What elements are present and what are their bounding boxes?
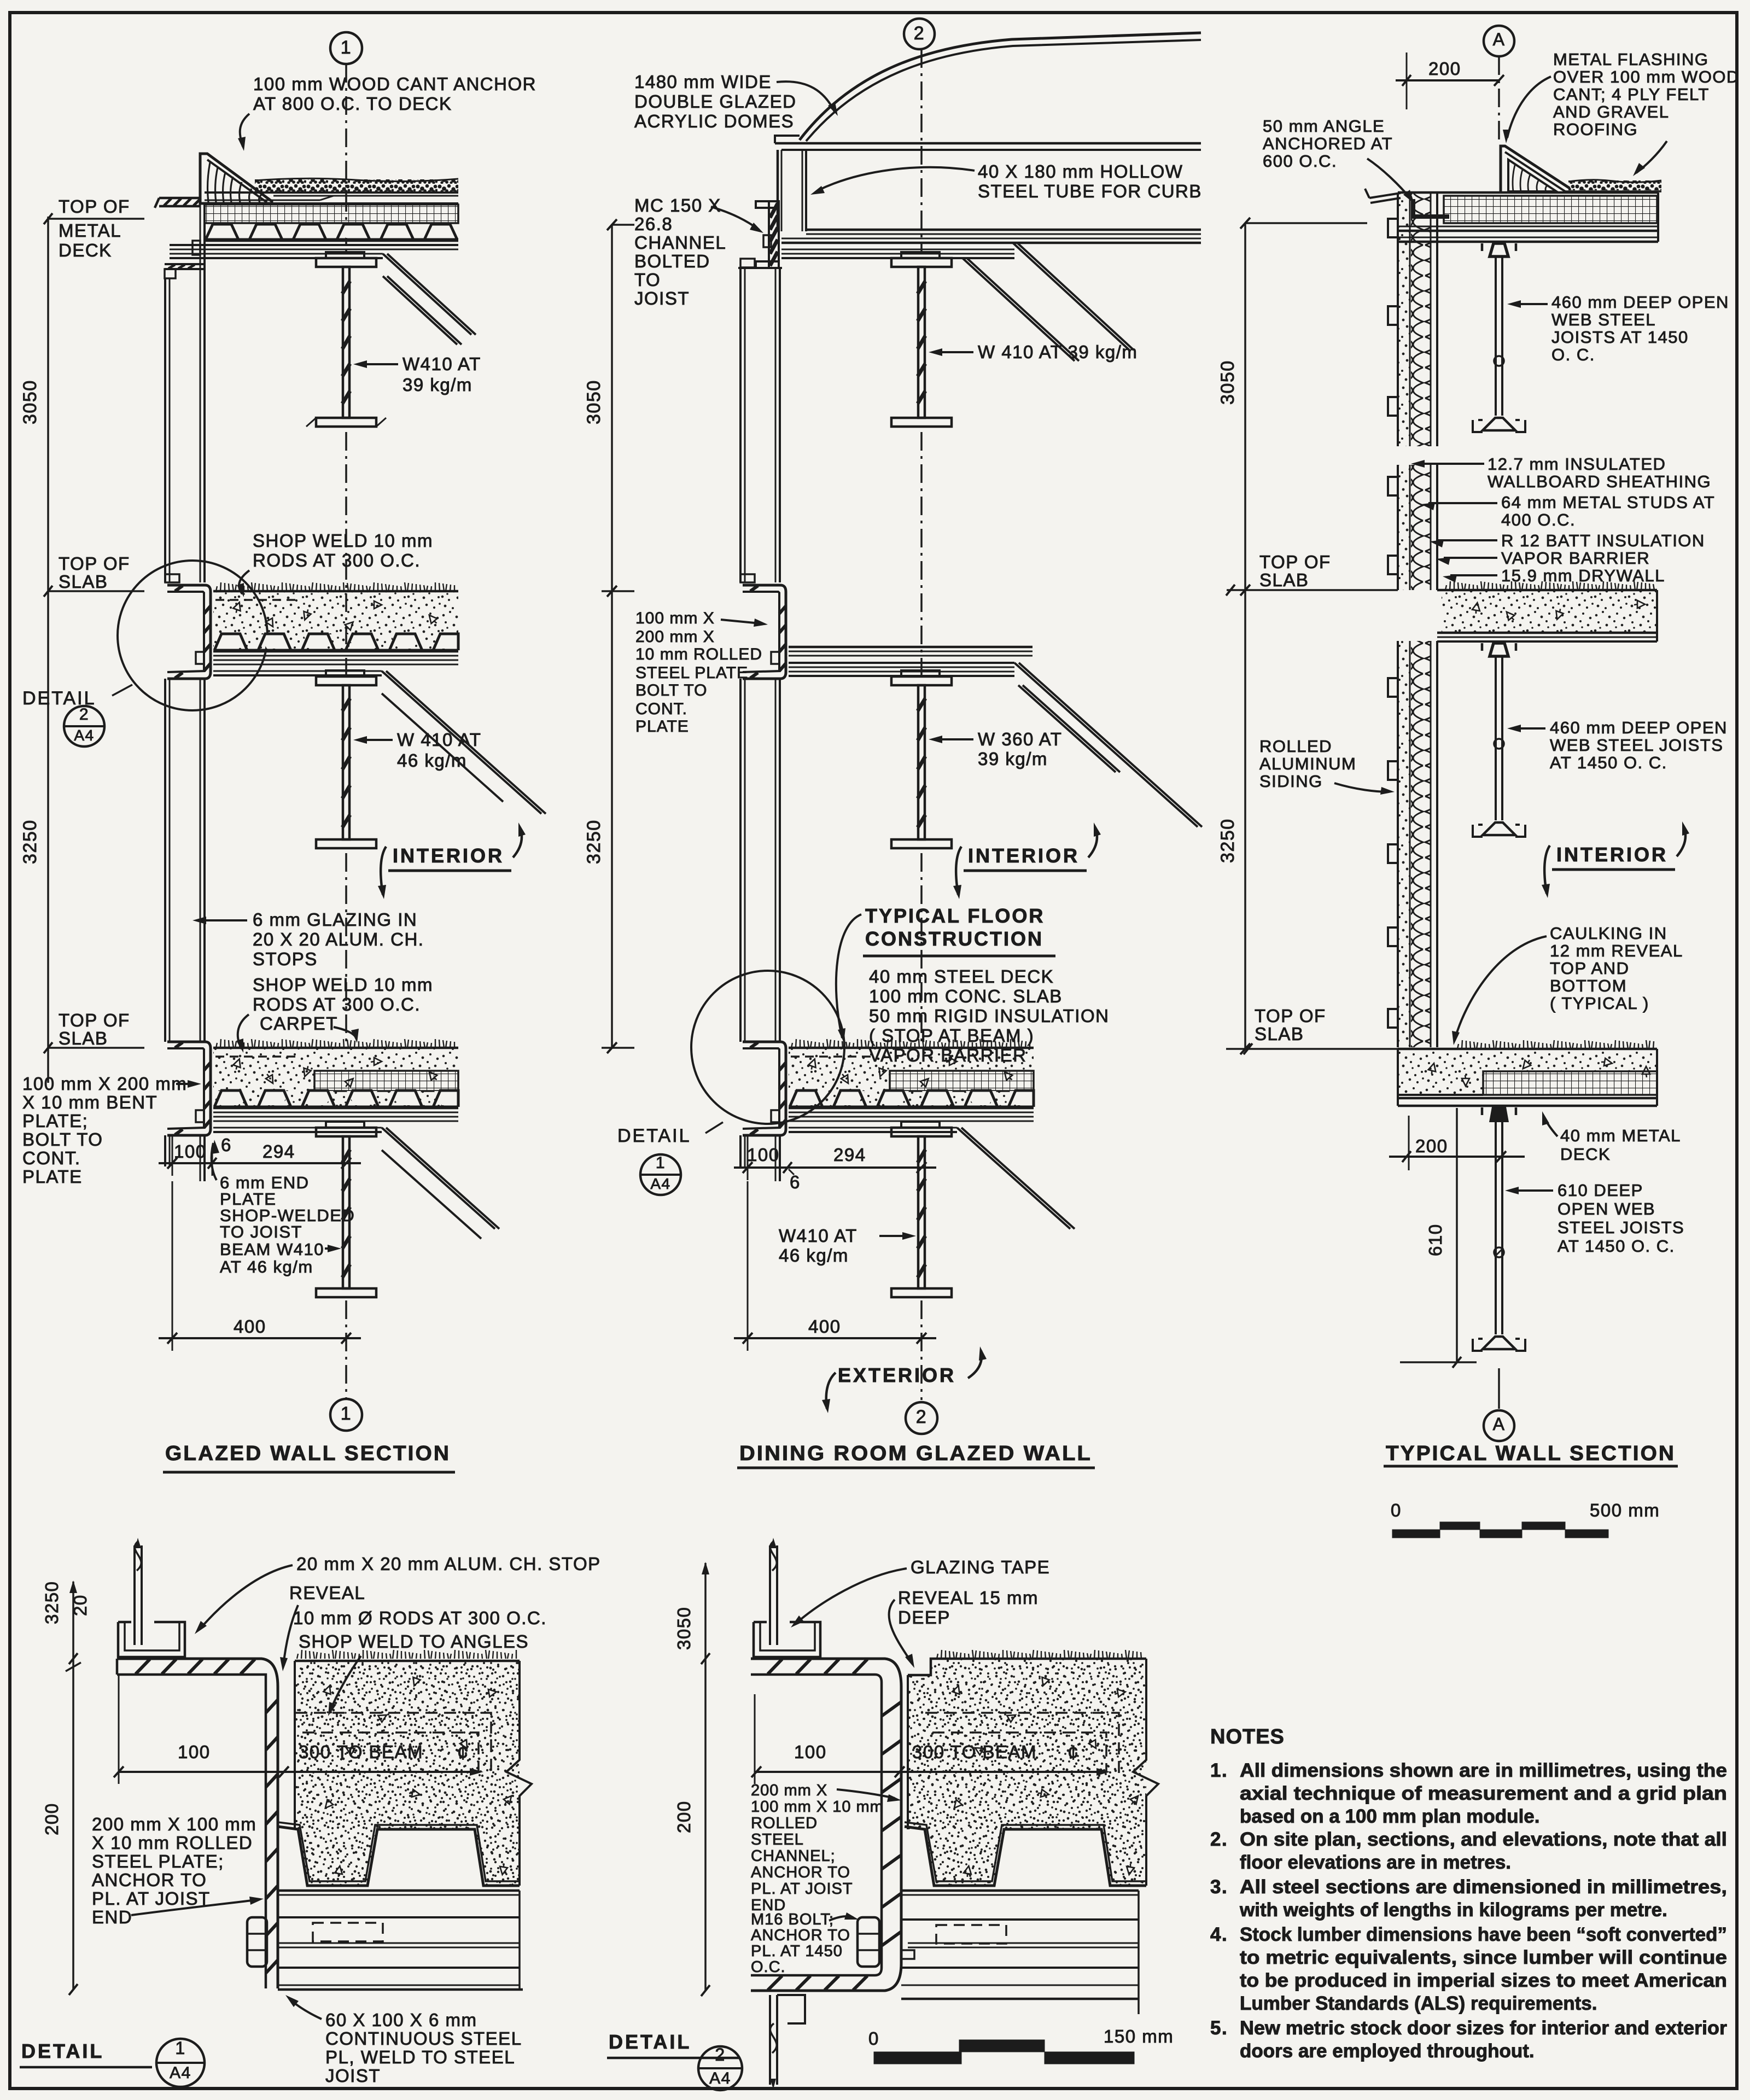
label reveal 15mm deep [889,1588,1039,1668]
first floor slab section 3 [1437,581,1657,641]
left dimension column section 1 [20,196,144,1083]
svg-text:10 mm Ø RODS AT 300 O.C: 10 mm Ø RODS AT 300 O.C. [293,1608,547,1628]
svg-text:20: 20 [70,1594,90,1616]
label W410 39 section 2 [929,342,1137,362]
svg-text:12 mm REVEAL: 12 mm REVEAL [1550,941,1683,960]
label 60x100x6 continuous steel pl detail 1 [285,1995,522,2086]
parapet wall below roof [165,204,205,278]
window mullion mid (section 1) [165,679,205,1042]
rolled steel channel detail 2 [751,1659,901,1991]
svg-text:W 360 AT: W 360 AT [978,729,1062,749]
svg-text:150 mm: 150 mm [1104,2026,1174,2046]
svg-text:ACRYLIC DOMES: ACRYLIC DOMES [634,111,794,131]
svg-text:( TYPICAL ): ( TYPICAL ) [1550,994,1649,1013]
grid bubble 2 bottom [906,1402,937,1434]
dim 200 bottom section 3 [1389,1116,1525,1170]
second floor slab section 2 [789,1039,1034,1132]
label 40x180 tube [810,161,1202,201]
svg-text:SLAB: SLAB [59,571,108,592]
svg-text:DETAIL: DETAIL [617,1125,691,1146]
top of slab label 2 section 3 [1226,1006,1398,1054]
label 1480mm domes [634,72,838,131]
svg-text:1.: 1. [1210,1760,1228,1781]
label 10mm rods shop weld [293,1608,547,1716]
svg-text:TO: TO [634,270,661,290]
svg-text:460 mm DEEP OPEN: 460 mm DEEP OPEN [1551,293,1729,312]
svg-text:CHANNEL;: CHANNEL; [751,1847,836,1865]
roof soffit lines [170,245,458,258]
svg-text:RODS AT 300 O.C.: RODS AT 300 O.C. [253,994,421,1014]
roof membrane lines [205,192,458,203]
svg-text:END: END [92,1907,132,1927]
dim 100/6/294 section 2 [734,1135,936,1192]
ceiling diagonals roof [383,254,476,345]
roof parapet flashing left [155,198,201,208]
svg-text:ANCHOR TO: ANCHOR TO [751,1864,850,1881]
concrete slab detail 1 [295,1650,532,1886]
svg-text:METAL: METAL [59,220,121,241]
svg-text:200 mm X: 200 mm X [635,628,715,646]
svg-text:100 mm X 200 mm: 100 mm X 200 mm [22,1074,187,1094]
svg-text:INTERIOR: INTERIOR [393,844,504,867]
INTERIOR label section 3 [1542,821,1689,898]
open web joist bottom section 3 [1473,1107,1525,1351]
window mullion upper section 2 [738,259,782,582]
window mullion mid section 2 [740,679,780,1042]
svg-text:2: 2 [916,1407,927,1427]
svg-text:INTERIOR: INTERIOR [968,844,1080,867]
svg-text:10 mm ROLLED: 10 mm ROLLED [635,645,762,663]
svg-text:All dimensions shown are in mi: All dimensions shown are in millimetres,… [1240,1760,1727,1781]
svg-text:CONTINUOUS STEEL: CONTINUOUS STEEL [325,2028,522,2049]
svg-text:ROOFING: ROOFING [1553,120,1638,139]
label metal flashing [1503,50,1740,176]
alum channel stop detail 1 [118,1622,185,1657]
svg-text:20 X 20 ALUM. CH.: 20 X 20 ALUM. CH. [253,929,424,949]
title: typical wall section [1384,1442,1678,1466]
label M16 bolt detail 2 [751,1911,859,1976]
svg-text:STEEL PLATE;: STEEL PLATE; [92,1851,224,1871]
open web joist mid section 3 [1473,643,1525,837]
svg-text:to metric equivalents, since l: to metric equivalents, since lumber will… [1240,1947,1727,1968]
svg-text:CHANNEL: CHANNEL [634,232,726,253]
acrylic dome arcs [800,33,1201,141]
exterior wall mid section 3 [1397,641,1399,1047]
svg-text:46 kg/m: 46 kg/m [397,750,467,771]
DETAIL 1 title [20,2038,205,2087]
svg-text:MC 150 X: MC 150 X [634,195,721,215]
svg-text:INTERIOR: INTERIOR [1556,843,1668,866]
svg-text:400 O.C.: 400 O.C. [1501,510,1576,529]
svg-text:50 mm RIGID INSULATION: 50 mm RIGID INSULATION [869,1006,1109,1026]
detail circle on first slab [118,561,267,710]
INTERIOR label section 2 [953,822,1101,899]
svg-text:STEEL PLATE: STEEL PLATE [635,664,748,682]
svg-text:PL. AT 1450: PL. AT 1450 [751,1942,843,1960]
svg-text:A4: A4 [709,2069,731,2087]
detail 1 drawing [20,1538,601,2087]
svg-text:¢: ¢ [1067,1741,1080,1764]
glass pane with break detail 1 [135,1538,142,1645]
label W410 46 mid [353,730,481,771]
svg-text:SLAB: SLAB [59,1028,108,1048]
svg-text:610 DEEP: 610 DEEP [1557,1181,1643,1200]
bottom steel assembly detail 1 [278,1891,523,1990]
alum stop detail 2 [754,1622,820,1657]
svg-text:200: 200 [674,1800,694,1833]
wall below second slab [165,1135,205,1181]
svg-text:BOTTOM: BOTTOM [1550,976,1627,995]
svg-text:3250: 3250 [42,1581,62,1624]
svg-text:AND GRAVEL: AND GRAVEL [1553,102,1670,121]
label MC150 channel [634,195,763,308]
bolt nub slab2 section 2 [771,1110,779,1122]
svg-text:O. C.: O. C. [1551,345,1595,364]
svg-text:100 mm X: 100 mm X [635,609,715,627]
detail 1/A4 callout [617,1122,723,1195]
svg-text:REVEAL 15 mm: REVEAL 15 mm [898,1588,1039,1608]
svg-text:5.: 5. [1210,2017,1228,2039]
svg-text:CAULKING IN: CAULKING IN [1550,924,1667,943]
label 200x100x10 rolled steel channel detail 2 [751,1782,901,1914]
svg-text:W410 AT: W410 AT [402,354,481,374]
svg-text:SLAB: SLAB [1259,570,1309,590]
svg-text:TO JOIST: TO JOIST [220,1222,302,1241]
top steel plate detail 1 [117,1659,278,1988]
svg-text:TYPICAL WALL SECTION: TYPICAL WALL SECTION [1386,1442,1676,1465]
label 6mm end plate [212,1140,355,1241]
steel deck profile detail 2 [905,1822,1146,1886]
svg-text:4.: 4. [1210,1924,1228,1945]
svg-text:with weights of lengths in kil: with weights of lengths in kilograms per… [1239,1899,1667,1921]
second floor slab section 3 [1398,1040,1657,1106]
svg-text:TOP AND: TOP AND [1550,959,1629,978]
svg-text:NOTES: NOTES [1210,1725,1285,1748]
svg-text:1: 1 [341,37,352,58]
svg-text:DINING ROOM GLAZED WALL: DINING ROOM GLAZED WALL [739,1442,1092,1465]
label 6mm glazing [192,909,424,969]
detail 2/A4 callout label [22,685,132,746]
bolt nub slab2 [196,1110,204,1122]
svg-text:JOISTS AT 1450: JOISTS AT 1450 [1551,328,1689,347]
grid bubble A top [1484,26,1514,56]
svg-text:axial technique of measurement: axial technique of measurement and a gri… [1240,1783,1727,1804]
DETAIL 2 title [607,2031,742,2090]
svg-text:PLATE;: PLATE; [22,1111,88,1131]
svg-text:500 mm: 500 mm [1590,1500,1660,1520]
svg-text:A4: A4 [170,2064,191,2082]
svg-text:0: 0 [1391,1500,1402,1520]
svg-text:O.C.: O.C. [751,1958,786,1976]
bent plate at first slab [167,585,211,679]
triangles in concrete detail 1 [322,1684,333,1697]
svg-text:ROLLED: ROLLED [1259,737,1332,756]
bent plate at second slab [167,1042,211,1135]
left dimension column section 3 [1217,218,1367,1054]
svg-text:TOP OF: TOP OF [1259,552,1331,572]
second floor slab section 1 [213,1039,458,1132]
label 50mm angle [1263,116,1414,203]
svg-text:W 410 AT: W 410 AT [397,730,481,750]
svg-text:CONSTRUCTION: CONSTRUCTION [865,927,1043,950]
concrete slab detail 2 [908,1650,1158,1886]
svg-text:AT 1450 O. C.: AT 1450 O. C. [1550,753,1667,772]
svg-text:( STOP AT BEAM ): ( STOP AT BEAM ) [869,1025,1034,1046]
svg-text:610: 610 [1425,1223,1445,1256]
svg-text:A: A [1493,30,1506,49]
svg-text:ROLLED: ROLLED [751,1815,818,1832]
beam W410 46 (mid, section 1) [316,670,376,848]
label 610 joists [1505,1181,1684,1256]
triangles in slabs section 3 [1472,602,1481,614]
label 40mm metal deck [1542,1111,1681,1164]
50mm angle in wall [1413,199,1449,217]
title: glazed wall section [163,1442,455,1472]
svg-text:STOPS: STOPS [253,949,318,969]
grid bubble 2 top [904,19,935,49]
grid bubble 1 bottom [330,1399,362,1431]
EXTERIOR label [822,1346,987,1413]
centerline section 2 [920,49,923,1400]
dim 200 top [1396,52,1504,109]
ceiling diagonals second slab [382,1128,499,1239]
svg-text:294: 294 [833,1145,866,1165]
beam W410 roof (section 1) [306,252,386,427]
roof deck lines section 2 [781,230,1201,258]
svg-text:VAPOR BARRIER: VAPOR BARRIER [1501,549,1650,568]
label: 100 mm wood cant anchor [238,74,536,151]
svg-text:PL, WELD TO STEEL: PL, WELD TO STEEL [325,2047,515,2067]
bolt nub on bent plate [196,652,204,664]
svg-text:A4: A4 [650,1175,670,1192]
MC150 channel [756,201,779,268]
bottom steel assembly detail 2 [901,1891,1139,2014]
svg-text:doors are employed throughout.: doors are employed throughout. [1240,2040,1535,2062]
beam W410 bottom section 2 [891,1122,952,1297]
centerline section 1 [345,64,347,1399]
svg-text:3250: 3250 [1217,818,1238,863]
label rolled aluminum siding [1259,737,1395,795]
svg-text:39 kg/m: 39 kg/m [978,749,1048,769]
svg-text:BEAM W410: BEAM W410 [220,1240,324,1259]
svg-text:All steel sections are dimensi: All steel sections are dimensioned in mi… [1240,1876,1727,1898]
top of slab label 1 section 3 [1226,552,1398,596]
scale bar 150mm [868,2026,1174,2064]
svg-text:ANCHOR TO: ANCHOR TO [92,1870,207,1890]
svg-text:A4: A4 [74,727,94,744]
dim 400 section 1 [159,1181,361,1351]
label 460mm joists (roof) [1507,293,1729,364]
label 20x20 alum ch stop [195,1554,601,1634]
svg-text:WEB STEEL JOISTS: WEB STEEL JOISTS [1550,736,1723,755]
svg-text:DECK: DECK [59,240,112,260]
svg-text:STEEL TUBE FOR CURB: STEEL TUBE FOR CURB [978,181,1202,201]
svg-text:TYPICAL FLOOR: TYPICAL FLOOR [865,905,1045,927]
svg-text:OVER 100 mm WOOD: OVER 100 mm WOOD [1553,67,1740,86]
svg-text:METAL FLASHING: METAL FLASHING [1553,50,1709,69]
svg-text:DETAIL: DETAIL [21,2040,104,2062]
ceiling diagonals first slab section 2 [1014,663,1202,827]
svg-text:1: 1 [656,1154,666,1172]
svg-text:W 410 AT 39 kg/m: W 410 AT 39 kg/m [978,342,1137,362]
first floor slab section 1 [213,582,458,675]
section 2: dining room glazed wall [584,19,1202,1468]
label caulking [1452,924,1683,1045]
svg-text:40 mm STEEL DECK: 40 mm STEEL DECK [869,966,1054,987]
steel deck profile detail 1 [278,1822,520,1886]
svg-text:DECK: DECK [1560,1145,1611,1164]
svg-text:New metric stock door sizes fo: New metric stock door sizes for interior… [1240,2017,1727,2039]
svg-text:6: 6 [790,1172,801,1192]
svg-text:AT 1450 O. C.: AT 1450 O. C. [1557,1236,1675,1256]
svg-text:300 TO BEAM: 300 TO BEAM [299,1742,423,1762]
svg-text:PLATE: PLATE [22,1166,83,1187]
svg-text:64 mm METAL STUDS AT: 64 mm METAL STUDS AT [1501,493,1715,512]
roof rigid insulation mesh [205,205,458,223]
svg-text:TOP OF: TOP OF [1255,1006,1326,1026]
left dim detail 2 (3050 / 200) [674,1562,710,1996]
svg-text:400: 400 [808,1316,841,1337]
svg-text:BOLT TO: BOLT TO [635,681,708,699]
svg-text:ANCHOR TO: ANCHOR TO [751,1927,850,1944]
svg-text:CARPET: CARPET [260,1013,338,1034]
svg-text:BOLTED: BOLTED [634,251,710,271]
label shop weld rods lower [236,975,433,1053]
label 100x200 bent plate (left margin) [22,1074,201,1187]
svg-text:EXTERIOR: EXTERIOR [838,1364,956,1386]
svg-text:100 mm X 10 mm: 100 mm X 10 mm [751,1798,884,1816]
left dims detail 1 [42,1580,90,1995]
svg-text:3.: 3. [1210,1876,1228,1898]
svg-text:1: 1 [175,2038,185,2058]
dashed rods detail 1 [295,1713,491,1776]
svg-text:AT 46 kg/m: AT 46 kg/m [220,1257,313,1276]
svg-text:PLATE: PLATE [635,717,689,736]
svg-text:M16 BOLT;: M16 BOLT; [751,1911,834,1928]
svg-text:R 12 BATT INSULATION: R 12 BATT INSULATION [1501,531,1705,550]
label: shop weld rods (upper) [237,530,433,597]
wallboard/stud/insulation labels [1411,454,1715,585]
svg-text:CANT; 4 PLY FELT: CANT; 4 PLY FELT [1553,85,1710,104]
detail 2 drawing [607,1538,1174,2090]
triangles in concrete detail 2 [951,1684,962,1697]
glass pane lower detail 2 [770,1995,805,2089]
svg-text:100: 100 [174,1141,207,1162]
svg-text:JOIST: JOIST [325,2066,381,2086]
dim 400 section 2 [734,1181,936,1351]
svg-text:OPEN WEB: OPEN WEB [1557,1199,1655,1218]
svg-text:2: 2 [79,705,89,724]
M16 bolt detail 1 [247,1917,267,1967]
svg-text:15.9 mm DRYWALL: 15.9 mm DRYWALL [1501,566,1665,585]
svg-text:DOUBLE GLAZED: DOUBLE GLAZED [634,91,796,112]
section 3: typical wall section [1217,26,1740,1538]
svg-text:200: 200 [1415,1136,1448,1156]
exterior wall upper lower part section 3 [1397,465,1399,590]
open web joist roof section 3 [1473,243,1525,432]
svg-text:¢: ¢ [457,1741,469,1764]
label carpet [260,1013,359,1043]
svg-text:6: 6 [221,1135,232,1155]
svg-text:AT 800 O.C. TO DECK: AT 800 O.C. TO DECK [253,94,452,114]
svg-text:2: 2 [715,2045,725,2064]
svg-text:40 mm METAL: 40 mm METAL [1560,1126,1681,1145]
svg-text:1480 mm WIDE: 1480 mm WIDE [634,72,772,92]
beam W410 bottom (section 1) [316,1122,376,1297]
svg-text:W410 AT: W410 AT [779,1226,857,1246]
svg-text:200: 200 [42,1802,62,1835]
svg-text:floor elevations are in metres: floor elevations are in metres. [1240,1852,1511,1873]
svg-text:100 mm CONC. SLAB: 100 mm CONC. SLAB [869,986,1063,1006]
svg-text:to be produced in imperial siz: to be produced in imperial sizes to meet… [1240,1970,1727,1991]
svg-text:DEEP: DEEP [898,1607,950,1627]
svg-text:TOP OF: TOP OF [59,553,130,574]
svg-text:STEEL: STEEL [751,1831,804,1848]
label W360 [929,729,1062,769]
dim 100/6/294 section 1 [159,1135,361,1176]
notes block [1210,1725,1727,2062]
INTERIOR label section 1 [378,822,526,899]
ceiling diagonals first slab [382,671,546,814]
section 1: glazed wall section [20,32,546,1472]
svg-text:400: 400 [234,1316,266,1337]
svg-text:6 mm GLAZING IN: 6 mm GLAZING IN [253,909,417,930]
bent plate second slab section 2 [743,1042,786,1135]
svg-text:CONT.: CONT. [22,1148,81,1168]
svg-text:SHOP WELD 10 mm: SHOP WELD 10 mm [253,975,433,995]
roof slab section 3 [1365,189,1658,242]
svg-text:0: 0 [868,2028,879,2049]
beam W410 roof section 2 [891,252,952,427]
exterior wall upper section 3 [1397,192,1399,446]
svg-text:2: 2 [914,23,925,44]
svg-text:200: 200 [1428,59,1461,79]
svg-text:12.7 mm INSULATED: 12.7 mm INSULATED [1487,454,1666,474]
svg-text:SHOP WELD TO ANGLES: SHOP WELD TO ANGLES [299,1631,529,1652]
ceiling diagonals section 2 roof [962,243,1134,361]
svg-text:On site plan, sections, and el: On site plan, sections, and elevations, … [1240,1829,1727,1850]
svg-text:100: 100 [178,1742,211,1762]
svg-text:CONT.: CONT. [635,700,687,718]
window mullion upper (section 1) [165,268,205,582]
wood cant roof [200,154,272,203]
label reveal [280,1583,365,1671]
hollow steel tube curb [778,150,806,231]
svg-text:X 10 mm BENT: X 10 mm BENT [22,1092,157,1112]
typical floor construction text [836,905,1110,1065]
label 460mm joists (mid) [1507,718,1728,772]
svg-text:Lumber Standards (ALS) require: Lumber Standards (ALS) requirements. [1240,1993,1597,2014]
svg-text:JOIST: JOIST [634,288,690,308]
beam label W410 39 [353,354,481,395]
svg-text:TOP OF: TOP OF [59,196,130,217]
wall below second slab section 2 [740,1135,780,1181]
dome curb cap [775,136,1201,150]
svg-text:294: 294 [262,1141,295,1162]
svg-text:SIDING: SIDING [1259,772,1323,791]
svg-text:50 mm ANGLE: 50 mm ANGLE [1263,116,1385,136]
metal flashing + wood cant section 3 [1501,146,1570,192]
left dimension column section 2 [584,219,634,1053]
svg-text:GLAZING TAPE: GLAZING TAPE [911,1557,1050,1577]
label 100x200x10 rolled steel plate [635,609,768,736]
svg-text:Stock lumber dimensions have b: Stock lumber dimensions have been “soft … [1240,1924,1727,1945]
svg-text:PL. AT JOIST: PL. AT JOIST [751,1880,853,1898]
svg-text:460 mm DEEP OPEN: 460 mm DEEP OPEN [1550,718,1728,737]
centerline section 3 top [1498,56,1500,139]
svg-text:WEB STEEL: WEB STEEL [1551,310,1656,329]
detail circle second slab section 2 [691,971,844,1124]
